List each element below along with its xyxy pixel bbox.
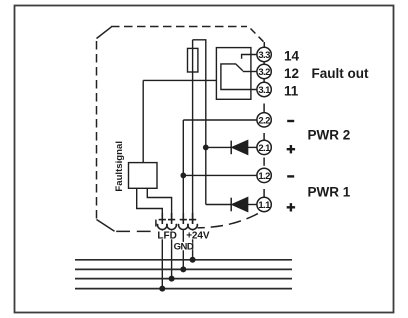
- bus line 4: [75, 288, 292, 290]
- connector circle 3.2-3.1: [263, 79, 265, 82]
- bus line 3: [75, 278, 292, 280]
- terminal circle 2.1: [257, 140, 271, 154]
- svg-text:2.1: 2.1: [258, 143, 271, 154]
- wire +24V vertical through fuse: [192, 40, 194, 224]
- terminal circle 3.1: [257, 82, 271, 96]
- bottom edge left of terminals: [116, 230, 151, 232]
- svg-text:LFD: LFD: [157, 230, 176, 241]
- wire terminal 2 down to bus 3: [171, 230, 173, 278]
- svg-text:3.3: 3.3: [258, 50, 270, 61]
- label plus PWR2: [287, 145, 295, 153]
- svg-text:12: 12: [284, 66, 299, 81]
- label minus PWR1: [287, 175, 294, 177]
- wire relay coil feed horizontal: [143, 79, 216, 81]
- dash in gap 3.1-2.2: [263, 104, 265, 113]
- wire relay feed down to faultsignal box: [142, 80, 144, 162]
- bottom-left bevel corner: [97, 220, 115, 232]
- junction dot LFDb/bus3: [169, 276, 175, 282]
- svg-text:GND: GND: [174, 241, 194, 252]
- stub above circle 3.3: [263, 42, 265, 47]
- plug terminal LFD b: [167, 213, 177, 230]
- svg-text:PWR 1: PWR 1: [308, 185, 351, 200]
- wire GND terminal down to bus 2: [182, 230, 184, 269]
- label LFD: [157, 230, 178, 241]
- svg-text:Fault out: Fault out: [312, 66, 369, 81]
- boundary step up to terminal row: [155, 220, 157, 227]
- junction dot feed/diode2: [203, 145, 209, 151]
- svg-text:1.2: 1.2: [258, 171, 270, 182]
- terminal circle 3.2: [257, 64, 271, 78]
- diode D1 (PWR1): [231, 198, 247, 212]
- wire terminal 4 down to bus 1: [192, 230, 194, 259]
- terminal circle 1.1: [257, 197, 271, 211]
- connector circle 3.3-3.2: [263, 62, 265, 65]
- svg-text:Faultsignal: Faultsignal: [114, 141, 125, 192]
- top-right bevel to terminal 3.3: [251, 29, 265, 43]
- terminal circle 3.3: [257, 47, 271, 61]
- plug terminal +24V: [188, 213, 198, 230]
- label minus PWR2: [287, 120, 294, 122]
- wire terminal 3.3 with contact stub: [242, 55, 257, 59]
- svg-text:1.1: 1.1: [258, 200, 271, 211]
- junction dot LFDa/bus4: [159, 286, 165, 292]
- plug terminal GND: [179, 213, 189, 230]
- label GND: [173, 241, 194, 252]
- wire faultsignal box to terminal LFD 2: [147, 188, 171, 219]
- plug terminal LFD a: [158, 213, 168, 230]
- wire terminal 3.2: [243, 71, 257, 73]
- label plus PWR1: [287, 203, 295, 211]
- bottom-right dashed curve under circle 1.1: [198, 214, 258, 228]
- faultsignal module box: [129, 163, 158, 189]
- wire feed to diode 1.1: [206, 204, 231, 206]
- junction dot +24V/bus1: [190, 257, 196, 263]
- bus line 2: [75, 268, 292, 270]
- junction dot GND/1.2: [180, 173, 186, 179]
- svg-text:+24V: +24V: [186, 231, 210, 242]
- bus line 1: [75, 259, 292, 261]
- relay contact box: [216, 48, 251, 100]
- svg-text:11: 11: [284, 84, 299, 99]
- top edge: [111, 26, 247, 28]
- wire diode 1.1 to terminal 1.1: [248, 204, 257, 206]
- dash in gap 2.2-2.1: [263, 133, 265, 142]
- top-left bevel corner: [97, 27, 112, 39]
- module outline (dashed boundary of device): [97, 27, 265, 232]
- svg-text:14: 14: [284, 48, 300, 63]
- wire terminal 1.2 horizontal: [183, 174, 257, 176]
- left edge: [96, 41, 98, 219]
- wire terminal 3.1 and contact arm: [221, 64, 257, 90]
- wire hook from fuse top to feed line: [193, 40, 206, 205]
- terminal circle 1.2: [257, 168, 271, 182]
- wire feed to diode 2.1: [206, 146, 231, 148]
- wire faultsignal box to terminal LFD 1: [137, 188, 163, 219]
- junction dot GND/bus2: [180, 266, 186, 272]
- wire terminal 2.2 horizontal: [183, 119, 257, 121]
- wire diode 2.1 to terminal 2.1: [248, 146, 257, 148]
- dash in gap 1.2-1.1: [263, 189, 265, 197]
- dash in gap 2.1-1.2: [263, 158, 265, 166]
- fuse F1: [188, 48, 198, 72]
- wires: [137, 40, 257, 289]
- svg-text:2.2: 2.2: [258, 115, 270, 126]
- wire GND vertical upper: [182, 120, 184, 224]
- label +24V: [186, 231, 210, 242]
- wire terminal 1 down to bus 4: [161, 230, 163, 288]
- svg-text:3.1: 3.1: [258, 85, 271, 96]
- svg-text:PWR 2: PWR 2: [308, 128, 351, 143]
- terminal circle 2.2: [257, 113, 271, 127]
- diode D2 (PWR2): [231, 141, 247, 155]
- svg-text:3.2: 3.2: [258, 67, 270, 78]
